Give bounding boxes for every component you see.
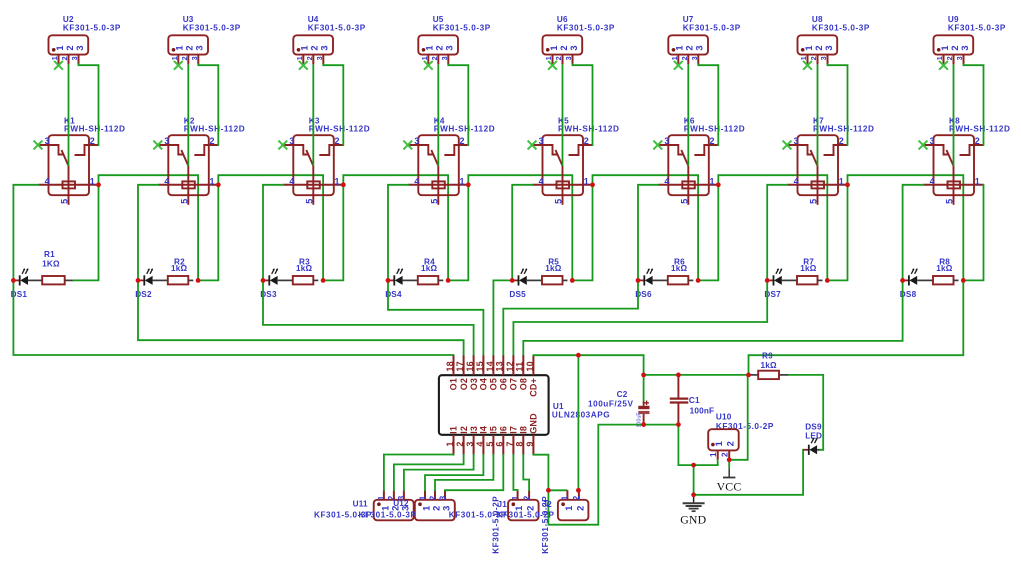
wire U7.3 to K6.2 bbox=[698, 64, 718, 145]
relay K4 RWH-SH-112D bbox=[408, 116, 495, 204]
svg-text:5: 5 bbox=[809, 199, 819, 204]
svg-text:1: 1 bbox=[710, 176, 715, 186]
wire K2.1 to R3 (VCC chain) bbox=[218, 175, 323, 280]
svg-text:4: 4 bbox=[930, 176, 935, 186]
ground symbol GND bbox=[680, 495, 706, 527]
connector U5 KF301-5.0-3P bbox=[418, 15, 490, 64]
resistor R6 bbox=[653, 257, 694, 284]
svg-text:3: 3 bbox=[320, 45, 330, 50]
wire DS1 cathode to U1 pin 18 bbox=[13, 280, 453, 355]
svg-text:5: 5 bbox=[305, 199, 315, 204]
wire R3 to K3.1 bbox=[323, 185, 343, 281]
wire U1 pin 7 to J1.1 bbox=[513, 455, 517, 491]
wire to J2.1 bbox=[548, 489, 567, 491]
svg-text:4: 4 bbox=[664, 176, 669, 186]
svg-text:3: 3 bbox=[438, 495, 447, 500]
svg-text:O6: O6 bbox=[499, 378, 509, 390]
svg-text:DS9: DS9 bbox=[805, 422, 822, 431]
svg-text:8: 8 bbox=[515, 441, 525, 446]
svg-text:2: 2 bbox=[575, 506, 585, 511]
no-connect X on U3 pin 1 bbox=[174, 61, 183, 70]
U1 pin 1 (I1) bbox=[453, 435, 455, 455]
svg-text:1: 1 bbox=[300, 45, 310, 50]
resistor R7 bbox=[782, 257, 823, 284]
wire GND rail bottom loop bbox=[548, 425, 678, 525]
resistor R5 bbox=[527, 257, 568, 284]
wire K3.4 to DS3 anode bbox=[263, 185, 283, 281]
svg-text:2: 2 bbox=[685, 45, 695, 50]
svg-text:KF301-5.0-3P: KF301-5.0-3P bbox=[683, 23, 741, 32]
relay K7 RWH-SH-112D bbox=[788, 116, 875, 204]
svg-text:U12: U12 bbox=[393, 499, 409, 508]
svg-text:2: 2 bbox=[554, 56, 563, 60]
no-connect X on K7 pin 3 bbox=[783, 141, 792, 150]
no-connect X on U4 pin 1 bbox=[299, 61, 308, 70]
wire R5 to K5.1 bbox=[572, 185, 592, 281]
svg-text:2: 2 bbox=[522, 495, 531, 500]
svg-text:3: 3 bbox=[819, 56, 828, 60]
svg-text:3: 3 bbox=[195, 45, 205, 50]
wire K6.1 to R7 (VCC chain) bbox=[718, 175, 827, 280]
svg-text:1: 1 bbox=[975, 176, 980, 186]
connector U12 (rotated) bbox=[415, 490, 455, 520]
U1 pin 14 (O5) bbox=[492, 355, 494, 375]
svg-text:O2: O2 bbox=[459, 378, 469, 390]
svg-text:O1: O1 bbox=[449, 378, 459, 390]
connector U7 KF301-5.0-3P bbox=[668, 15, 740, 64]
svg-text:1: 1 bbox=[935, 56, 944, 60]
svg-text:5: 5 bbox=[430, 199, 440, 204]
svg-text:3: 3 bbox=[465, 441, 475, 446]
svg-text:RWH-SH-112D: RWH-SH-112D bbox=[64, 124, 125, 133]
wire R8 to K8.1 bbox=[963, 185, 983, 281]
svg-text:2: 2 bbox=[572, 495, 581, 500]
svg-text:I4: I4 bbox=[479, 426, 489, 434]
connector J1 (rotated) bbox=[508, 490, 538, 520]
svg-text:2: 2 bbox=[185, 45, 195, 50]
wire VCC rail to J2.2 bbox=[577, 355, 579, 490]
svg-text:3: 3 bbox=[695, 45, 705, 50]
wire U7.2 to K6 switch bbox=[687, 64, 689, 166]
svg-text:KF301-5.0-3P: KF301-5.0-3P bbox=[183, 23, 241, 32]
svg-text:2: 2 bbox=[839, 136, 844, 146]
svg-text:1: 1 bbox=[335, 176, 340, 186]
relay K6 RWH-SH-112D bbox=[658, 116, 745, 204]
svg-text:7: 7 bbox=[505, 441, 515, 446]
wire U1 pin 2 to U11.2 bbox=[394, 455, 464, 491]
relay K1 RWH-SH-112D bbox=[39, 116, 126, 204]
svg-text:1: 1 bbox=[418, 495, 427, 500]
svg-text:4: 4 bbox=[539, 176, 544, 186]
wire K8.4 to DS8 anode bbox=[903, 185, 924, 281]
wire U8.3 to K7.2 bbox=[828, 64, 848, 145]
svg-text:2: 2 bbox=[945, 56, 954, 60]
junction dots layer bbox=[11, 278, 16, 283]
LED DS7 bbox=[764, 268, 782, 299]
svg-text:1: 1 bbox=[839, 176, 844, 186]
svg-text:2: 2 bbox=[584, 136, 589, 146]
svg-text:1: 1 bbox=[714, 441, 724, 446]
wire C1- to U10.1 bbox=[678, 425, 717, 466]
svg-text:O4: O4 bbox=[479, 378, 489, 390]
U1 pin 5 (I5) bbox=[492, 435, 494, 455]
svg-text:2: 2 bbox=[814, 45, 824, 50]
wire DS8 cathode to U1 pin 11 bbox=[523, 280, 902, 355]
svg-text:I1: I1 bbox=[449, 426, 459, 434]
svg-text:C2: C2 bbox=[617, 390, 628, 399]
svg-text:2: 2 bbox=[210, 136, 215, 146]
U1 pin 2 (I2) bbox=[463, 435, 465, 455]
wire DS6 cathode to U1 pin 13 bbox=[503, 280, 638, 355]
svg-text:KF301-5.0-3P: KF301-5.0-3P bbox=[812, 23, 870, 32]
no-connect X on U5 pin 1 bbox=[424, 61, 433, 70]
svg-text:RWH-SH-112D: RWH-SH-112D bbox=[558, 124, 619, 133]
LED DS6 bbox=[635, 268, 653, 299]
svg-text:1: 1 bbox=[90, 176, 95, 186]
wire U1 pin 3 to U11.3 bbox=[404, 455, 474, 491]
wire U9.3 to K8.2 bbox=[964, 64, 984, 145]
wire U10.1 to GND net bbox=[717, 460, 719, 466]
svg-text:RWH-SH-112D: RWH-SH-112D bbox=[949, 124, 1010, 133]
wire R4 to K4.1 bbox=[448, 185, 468, 281]
wire U1 GND (pin9) to J2.1 bbox=[533, 455, 548, 491]
svg-text:KF301-5.0-3P: KF301-5.0-3P bbox=[359, 511, 417, 520]
wire R9 to DS9 anode bbox=[789, 375, 823, 450]
svg-text:5: 5 bbox=[945, 199, 955, 204]
svg-text:2: 2 bbox=[305, 56, 314, 60]
svg-text:2: 2 bbox=[455, 441, 465, 446]
svg-text:GND: GND bbox=[680, 513, 706, 527]
svg-text:I6: I6 bbox=[499, 426, 509, 434]
svg-text:3: 3 bbox=[190, 56, 199, 60]
U1 pin 16 (O3) bbox=[473, 355, 475, 375]
svg-text:17: 17 bbox=[455, 361, 465, 371]
capacitor C1 100nF bbox=[670, 375, 714, 425]
svg-text:2: 2 bbox=[720, 452, 729, 457]
U1 pin 17 (O2) bbox=[463, 355, 465, 375]
no-connect X on K8 pin 3 bbox=[919, 141, 928, 150]
wire DS2 cathode to U1 pin 17 bbox=[138, 280, 464, 355]
svg-text:KF301-5.0-3P: KF301-5.0-3P bbox=[308, 23, 366, 32]
wire U10.2 to R9 left bbox=[729, 375, 748, 460]
U1 pin 3 (I3) bbox=[473, 435, 475, 455]
svg-text:1kΩ: 1kΩ bbox=[761, 361, 778, 370]
U1 pin 11 (O8) bbox=[522, 355, 524, 375]
no-connect X on U8 pin 1 bbox=[803, 61, 812, 70]
connector J2 (rotated) bbox=[558, 490, 589, 520]
svg-text:2: 2 bbox=[435, 45, 445, 50]
svg-text:1: 1 bbox=[175, 45, 185, 50]
wire U4.2 to K3 switch bbox=[312, 64, 314, 166]
svg-text:13: 13 bbox=[495, 361, 505, 371]
no-connect X on U7 pin 1 bbox=[674, 61, 683, 70]
svg-text:2: 2 bbox=[975, 136, 980, 146]
svg-text:C1: C1 bbox=[689, 396, 700, 405]
svg-text:O3: O3 bbox=[469, 378, 479, 390]
svg-text:5: 5 bbox=[180, 199, 190, 204]
relay K2 RWH-SH-112D bbox=[158, 116, 245, 204]
resistor R8 bbox=[917, 257, 958, 284]
svg-text:15: 15 bbox=[475, 361, 485, 371]
U1 pin 4 (I4) bbox=[482, 435, 484, 455]
wire DS5 cathode to U1 pin 14 bbox=[493, 280, 512, 355]
svg-text:RWH-SH-112D: RWH-SH-112D bbox=[813, 124, 874, 133]
svg-text:100nF: 100nF bbox=[690, 406, 715, 415]
svg-text:18: 18 bbox=[445, 361, 455, 371]
U1 pin 15 (O4) bbox=[482, 355, 484, 375]
no-connect X on K4 pin 3 bbox=[403, 141, 412, 150]
svg-text:I2: I2 bbox=[459, 426, 469, 434]
svg-text:1: 1 bbox=[564, 506, 574, 511]
wire DS3 cathode to U1 pin 16 bbox=[263, 280, 474, 355]
svg-text:1: 1 bbox=[460, 176, 465, 186]
wire U1 pin 4 to U12.1 bbox=[425, 455, 483, 491]
svg-text:1: 1 bbox=[295, 56, 304, 60]
wire U1 pin 6 to U12.3 bbox=[445, 455, 503, 491]
no-connect X on K5 pin 3 bbox=[528, 141, 537, 150]
no-connect X on K3 pin 3 bbox=[278, 141, 287, 150]
wire U5.2 to K4 switch bbox=[437, 64, 439, 166]
LED DS9 bbox=[803, 422, 822, 455]
relay K8 RWH-SH-112D bbox=[924, 116, 1011, 204]
svg-text:1: 1 bbox=[804, 45, 814, 50]
svg-text:16: 16 bbox=[465, 361, 475, 371]
relay K3 RWH-SH-112D bbox=[283, 116, 370, 204]
connector U8 KF301-5.0-3P bbox=[798, 15, 870, 64]
wire U6.2 to K5 switch bbox=[562, 64, 564, 166]
wire U1 pin 1 to U11.1 bbox=[384, 455, 454, 491]
svg-text:1: 1 bbox=[55, 45, 65, 50]
svg-text:12: 12 bbox=[505, 361, 515, 371]
svg-text:2: 2 bbox=[809, 56, 818, 60]
svg-text:U11: U11 bbox=[353, 500, 368, 509]
svg-text:3: 3 bbox=[75, 45, 85, 50]
U1 pin 9 (GND) bbox=[532, 435, 534, 455]
svg-text:1: 1 bbox=[50, 56, 59, 60]
svg-text:KF301-5.0-3P: KF301-5.0-3P bbox=[557, 23, 615, 32]
svg-text:2: 2 bbox=[431, 506, 441, 511]
relay K5 RWH-SH-112D bbox=[533, 116, 620, 204]
wire K5.4 to DS5 anode bbox=[512, 185, 532, 281]
resistor R3 bbox=[278, 257, 319, 284]
svg-text:I5: I5 bbox=[489, 426, 499, 434]
svg-text:4: 4 bbox=[414, 176, 419, 186]
svg-text:1kΩ: 1kΩ bbox=[936, 264, 953, 273]
svg-text:1: 1 bbox=[709, 452, 718, 457]
svg-text:6: 6 bbox=[495, 441, 505, 446]
connector U6 KF301-5.0-3P bbox=[543, 15, 615, 64]
svg-text:3: 3 bbox=[955, 56, 964, 60]
svg-text:3: 3 bbox=[445, 45, 455, 50]
connector U11 (rotated) bbox=[374, 490, 414, 520]
svg-text:9: 9 bbox=[525, 441, 535, 446]
connector U2 KF301-5.0-3P bbox=[49, 15, 121, 64]
svg-text:5: 5 bbox=[680, 199, 690, 204]
U1 pin 8 (I8) bbox=[522, 435, 524, 455]
svg-text:4: 4 bbox=[45, 176, 50, 186]
wire K1.4 to DS1 anode bbox=[13, 185, 38, 281]
U1 pin 13 (O6) bbox=[502, 355, 504, 375]
svg-text:3: 3 bbox=[440, 56, 449, 60]
wire U5.3 to K4.2 bbox=[448, 64, 468, 145]
svg-text:CD+: CD+ bbox=[529, 378, 539, 397]
svg-text:3: 3 bbox=[960, 45, 970, 50]
svg-text:DS5: DS5 bbox=[509, 290, 526, 299]
LED DS8 bbox=[900, 268, 918, 299]
svg-text:KF301-5.0-3P: KF301-5.0-3P bbox=[433, 23, 491, 32]
svg-text:1: 1 bbox=[799, 56, 808, 60]
svg-text:1kΩ: 1kΩ bbox=[296, 264, 313, 273]
svg-text:5: 5 bbox=[554, 199, 564, 204]
svg-text:2: 2 bbox=[335, 136, 340, 146]
wire U1 pin 8 to J1.2 bbox=[523, 455, 529, 491]
svg-text:2: 2 bbox=[680, 56, 689, 60]
svg-text:2: 2 bbox=[710, 136, 715, 146]
svg-text:4: 4 bbox=[475, 441, 485, 446]
wire R7 to K7.1 bbox=[827, 185, 847, 281]
svg-text:5: 5 bbox=[485, 441, 495, 446]
svg-text:RWH-SH-112D: RWH-SH-112D bbox=[309, 124, 370, 133]
svg-text:ULN2803APG: ULN2803APG bbox=[552, 410, 610, 419]
svg-text:1: 1 bbox=[170, 56, 179, 60]
svg-text:1: 1 bbox=[549, 45, 559, 50]
svg-text:1: 1 bbox=[210, 176, 215, 186]
connector U3 KF301-5.0-3P bbox=[168, 15, 240, 64]
svg-text:KF301-5.0-3P: KF301-5.0-3P bbox=[63, 23, 121, 32]
IC U1 ULN2803APG bbox=[439, 355, 610, 454]
connector U4 KF301-5.0-3P bbox=[293, 15, 365, 64]
svg-text:2: 2 bbox=[180, 56, 189, 60]
svg-text:1: 1 bbox=[425, 45, 435, 50]
svg-text:4: 4 bbox=[794, 176, 799, 186]
wire branch to GND symbol bbox=[693, 465, 695, 495]
wire VCC rail B bbox=[644, 374, 749, 376]
svg-text:5: 5 bbox=[60, 199, 70, 204]
svg-text:1: 1 bbox=[445, 441, 455, 446]
svg-text:1kΩ: 1kΩ bbox=[671, 264, 688, 273]
svg-text:2: 2 bbox=[428, 495, 437, 500]
svg-text:2: 2 bbox=[559, 45, 569, 50]
svg-text:RWH-SH-112D: RWH-SH-112D bbox=[684, 124, 745, 133]
svg-text:RWH-SH-112D: RWH-SH-112D bbox=[184, 124, 245, 133]
svg-text:2: 2 bbox=[90, 136, 95, 146]
svg-text:3: 3 bbox=[690, 56, 699, 60]
svg-text:I7: I7 bbox=[509, 426, 519, 434]
no-connect X on K6 pin 3 bbox=[653, 141, 662, 150]
svg-text:1: 1 bbox=[511, 495, 520, 500]
U1 pin 6 (I6) bbox=[502, 435, 504, 455]
svg-text:2: 2 bbox=[65, 45, 75, 50]
wire DS4 cathode to U1 pin 15 bbox=[388, 280, 483, 355]
svg-text:2: 2 bbox=[950, 45, 960, 50]
svg-text:3: 3 bbox=[824, 45, 834, 50]
svg-text:2: 2 bbox=[430, 56, 439, 60]
wire U6.3 to K5.2 bbox=[573, 64, 593, 145]
svg-text:1: 1 bbox=[544, 56, 553, 60]
svg-text:3: 3 bbox=[564, 56, 573, 60]
no-connect X on K1 pin 3 bbox=[34, 141, 43, 150]
svg-text:O8: O8 bbox=[519, 378, 529, 390]
wire K1.1 to R2 (VCC chain) bbox=[99, 175, 199, 280]
U1 pin 18 (O1) bbox=[453, 355, 455, 375]
svg-text:VCC: VCC bbox=[717, 480, 742, 494]
svg-text:1KΩ: 1KΩ bbox=[42, 260, 60, 269]
wire K3.1 to R4 (VCC chain) bbox=[343, 175, 448, 280]
resistor R4 bbox=[403, 257, 444, 284]
svg-text:14: 14 bbox=[485, 361, 495, 371]
svg-text:4: 4 bbox=[289, 176, 294, 186]
svg-text:1: 1 bbox=[584, 176, 589, 186]
svg-text:2: 2 bbox=[726, 441, 736, 446]
wire K6.4 to DS6 anode bbox=[638, 185, 658, 281]
svg-text:R9: R9 bbox=[762, 352, 773, 361]
wire K7.1 to R8 (VCC chain) bbox=[848, 175, 964, 280]
wire U1 CD+ (pin10) to VCC rail bbox=[533, 355, 643, 375]
wire K7.4 to DS7 anode bbox=[767, 185, 787, 281]
svg-text:KF301-5.0-2P: KF301-5.0-2P bbox=[541, 496, 550, 554]
wire GND to DS9 cathode bbox=[694, 450, 804, 495]
resistor R1 bbox=[28, 250, 74, 284]
svg-text:11: 11 bbox=[515, 362, 525, 372]
capacitor C2 100uF/25V bbox=[588, 375, 650, 428]
wire U2.3 to K1.2 bbox=[79, 64, 99, 145]
svg-text:1: 1 bbox=[670, 56, 679, 60]
wire U9.2 to K8 switch bbox=[953, 64, 955, 166]
wire DS7 cathode to U1 pin 12 bbox=[513, 280, 767, 355]
no-connect X on U9 pin 1 bbox=[939, 61, 948, 70]
LED DS2 bbox=[135, 268, 153, 299]
wire K4.1 to R5 (VCC chain) bbox=[468, 175, 572, 280]
LED DS5 bbox=[509, 268, 527, 299]
svg-text:2: 2 bbox=[310, 45, 320, 50]
wire R2 to K2.1 bbox=[198, 185, 218, 281]
svg-text:1: 1 bbox=[940, 45, 950, 50]
U1 pin 10 (CD+) bbox=[532, 355, 534, 375]
svg-text:GND: GND bbox=[529, 413, 539, 434]
svg-text:1: 1 bbox=[421, 506, 431, 511]
connector U9 KF301-5.0-3P bbox=[934, 15, 1006, 64]
resistor R2 bbox=[153, 257, 194, 284]
wire R6 to K6.1 bbox=[698, 185, 718, 281]
svg-text:U10: U10 bbox=[716, 413, 732, 422]
svg-text:1: 1 bbox=[420, 56, 429, 60]
U1 pin 7 (I7) bbox=[512, 435, 514, 455]
svg-text:3: 3 bbox=[569, 45, 579, 50]
wire K2.4 to DS2 anode bbox=[138, 185, 158, 281]
svg-text:3: 3 bbox=[70, 56, 79, 60]
connector U10 KF301-5.0-2P bbox=[708, 413, 774, 460]
svg-text:I8: I8 bbox=[519, 426, 529, 434]
svg-text:100uF/25V: 100uF/25V bbox=[588, 399, 633, 408]
no-connect X on U6 pin 1 bbox=[548, 61, 557, 70]
svg-text:R1: R1 bbox=[44, 250, 55, 259]
svg-text:1kΩ: 1kΩ bbox=[545, 264, 562, 273]
U1 pin 12 (O7) bbox=[512, 355, 514, 375]
wire U4.3 to K3.2 bbox=[323, 64, 343, 145]
svg-text:O7: O7 bbox=[509, 378, 519, 390]
svg-text:10: 10 bbox=[525, 361, 535, 371]
svg-text:1: 1 bbox=[675, 45, 685, 50]
svg-text:1kΩ: 1kΩ bbox=[421, 264, 438, 273]
no-connect X on U2 pin 1 bbox=[54, 61, 63, 70]
LED DS3 bbox=[260, 268, 278, 299]
wire K4.4 to DS4 anode bbox=[388, 185, 408, 281]
wire R1 to K1.1 bbox=[74, 185, 99, 281]
wire U3.3 to K2.2 bbox=[198, 64, 218, 145]
wire U1 pin 5 to U12.2 bbox=[435, 455, 493, 491]
LED DS1 bbox=[11, 268, 29, 299]
svg-text:I3: I3 bbox=[469, 426, 479, 434]
